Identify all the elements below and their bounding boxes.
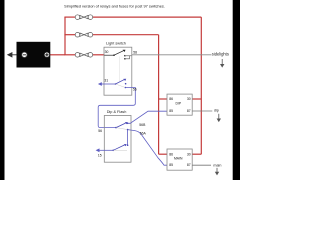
wire: 56A xyxy=(128,130,167,166)
wire: 31 out with arrow xyxy=(101,83,116,85)
wire: left red bus vertical xyxy=(64,17,66,55)
flash lever xyxy=(112,144,128,151)
right black bar xyxy=(233,0,240,180)
wire: 15 out with arrow xyxy=(99,149,114,151)
wire: fuse row 3 to light switch pin 30 xyxy=(93,54,105,56)
svg-text:87: 87 xyxy=(187,163,191,167)
dip & flash box xyxy=(104,116,131,163)
wire: 56B xyxy=(128,111,167,123)
fuse F2 xyxy=(75,32,93,37)
wire: dip output xyxy=(192,110,212,112)
main arrow xyxy=(215,168,219,176)
svg-text:56B: 56B xyxy=(139,123,146,127)
fuse F1 xyxy=(75,15,93,20)
svg-text:Simplified version of relays a: Simplified version of relays and fuses f… xyxy=(64,3,165,8)
svg-text:30: 30 xyxy=(187,97,191,101)
battery xyxy=(17,42,51,68)
light switch main lever xyxy=(104,50,125,60)
wire: DIP 86 stub xyxy=(159,98,167,100)
svg-text:87: 87 xyxy=(187,109,191,113)
ground arrow xyxy=(7,52,13,58)
svg-text:31: 31 xyxy=(104,78,108,82)
wire: mid red bus vertical xyxy=(158,35,160,155)
wire: fuse row 2 to mid bus xyxy=(93,34,159,36)
wire: 58 jog xyxy=(125,56,130,59)
svg-text:Dip & Flash: Dip & Flash xyxy=(107,110,127,114)
wire: DIP 30 stub xyxy=(192,98,201,100)
svg-text:30: 30 xyxy=(105,50,109,54)
svg-text:56: 56 xyxy=(133,87,137,91)
dip arrow xyxy=(217,114,221,122)
light switch link line xyxy=(119,57,121,83)
wire: right red bus vertical xyxy=(200,17,202,154)
fuse F3 xyxy=(75,53,93,58)
battery + terminal xyxy=(44,52,49,57)
wire: MAIN 86 stub xyxy=(159,153,167,155)
svg-text:Light switch: Light switch xyxy=(106,42,126,46)
svg-text:86: 86 xyxy=(169,97,173,101)
svg-text:30: 30 xyxy=(187,152,191,156)
relay MAIN box xyxy=(167,149,192,170)
svg-text:main: main xyxy=(213,164,221,168)
wire: fuse row 3 feed xyxy=(64,54,75,56)
svg-text:MAIN: MAIN xyxy=(174,156,183,160)
sidelights arrow xyxy=(220,59,224,68)
svg-text:85: 85 xyxy=(169,163,173,167)
wire: 56 out of light switch xyxy=(98,88,135,128)
light switch box xyxy=(104,47,132,95)
svg-text:dip: dip xyxy=(214,108,219,112)
svg-text:58: 58 xyxy=(133,51,137,55)
light switch lower lever xyxy=(115,79,127,89)
svg-text:15: 15 xyxy=(98,153,102,157)
wire: main output xyxy=(192,164,211,166)
relay DIP box xyxy=(167,94,192,115)
wire: fuse row 2 feed xyxy=(64,34,75,36)
svg-text:86: 86 xyxy=(169,152,173,156)
31 arrow xyxy=(98,82,102,86)
wire: link between contacts xyxy=(127,130,129,146)
svg-text:56A: 56A xyxy=(140,131,147,135)
dip lever xyxy=(115,122,128,130)
battery ground wire xyxy=(11,54,22,56)
wire: MAIN 30 stub xyxy=(192,153,201,155)
15 arrow xyxy=(96,148,100,152)
left black bar xyxy=(0,0,5,180)
svg-text:56: 56 xyxy=(98,129,102,133)
wire: fuse row 1 feed xyxy=(64,16,75,18)
svg-text:sidelights: sidelights xyxy=(212,52,229,57)
wire: battery + to left red bus xyxy=(50,54,66,56)
wire: fuse row 1 to right bus xyxy=(93,16,202,18)
wire: 58 out to sidelights xyxy=(125,54,212,57)
svg-text:85: 85 xyxy=(169,109,173,113)
svg-text:DIP: DIP xyxy=(175,101,181,105)
battery - terminal xyxy=(22,52,27,57)
